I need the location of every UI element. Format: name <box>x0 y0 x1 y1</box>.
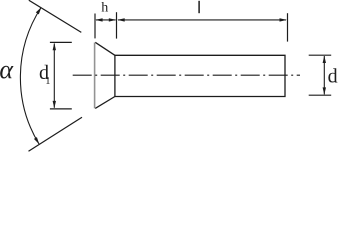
dimension h: left extension line <box>94 14 96 39</box>
svg-text:h: h <box>101 1 108 16</box>
svg-text:1: 1 <box>45 76 50 87</box>
dimension d: top extension line <box>309 54 332 56</box>
rivet head top slant edge <box>95 42 115 55</box>
dimension d1: top extension line <box>50 41 72 43</box>
rivet shank (body rectangle) <box>115 55 285 96</box>
dimension d: vertical dimension line with arrows <box>323 56 326 95</box>
centerline (dash-dot axis) <box>73 74 300 76</box>
label l <box>198 1 200 13</box>
angle alpha: arc dimension with arrows <box>20 7 41 144</box>
dimension d1: vertical dimension line with arrows <box>53 43 56 108</box>
dimension h: dimension line with arrows <box>95 18 116 21</box>
dimension d1: bottom extension line <box>50 108 72 110</box>
svg-text:α: α <box>0 55 14 84</box>
svg-text:d: d <box>328 65 338 87</box>
dimension d: bottom extension line <box>309 94 332 96</box>
angle alpha: upper reference line <box>29 0 82 32</box>
rivet head bottom slant edge <box>95 97 115 109</box>
angle alpha: lower reference line <box>29 117 83 151</box>
rivet head right edge (head-shank junction) <box>114 55 116 96</box>
dimension h: right extension line <box>116 12 118 38</box>
dimension l: dimension line with arrows <box>117 18 287 21</box>
rivet head flat face (gray line) <box>94 43 96 109</box>
dimension l: right extension line <box>287 13 289 41</box>
